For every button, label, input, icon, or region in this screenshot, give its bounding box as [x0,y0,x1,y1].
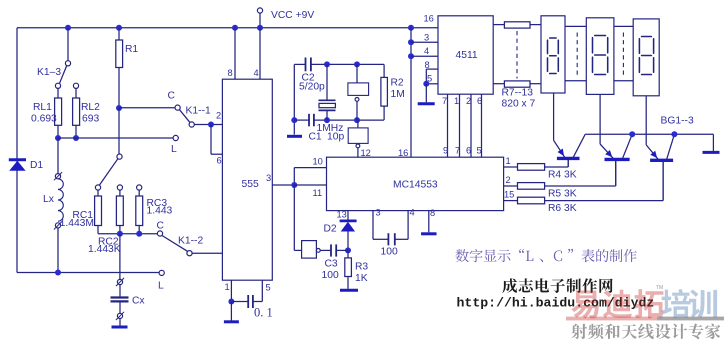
wire RC1 stub [97,190,99,196]
svg-text:3: 3 [376,208,381,218]
display DS3 body [633,19,659,96]
wire pin2-pin6 [210,125,212,155]
wire RC3 bottom [138,226,140,234]
jack Lx top [55,174,60,179]
trimmer top circle [355,98,359,102]
resistor RC3 [136,196,143,226]
node trim1 top [354,61,360,67]
svg-text:C: C [157,221,165,232]
wire 555 pin3 [272,184,294,186]
wire Cx top [119,234,121,280]
ground Cx [112,326,128,329]
wire C-tap down [118,108,120,154]
ground R3 [340,289,358,292]
svg-text:2: 2 [216,111,221,121]
display DS3 digit [639,37,653,75]
wire gate out [320,249,331,251]
wire osc top-left [294,63,305,65]
svg-text:555: 555 [242,179,259,190]
wire disp2-3 top [614,25,633,27]
wire R7 dashes [516,31,518,79]
inductor Lx [58,179,63,221]
wire MC pin3b [372,211,374,240]
wire C-tap to C [119,107,175,109]
switch contact RC1 [95,185,100,190]
node rail-R1 [116,25,122,31]
svg-text:BG1--3: BG1--3 [661,116,694,127]
wire RL1 bottom [57,125,59,138]
svg-text:0.693: 0.693 [31,114,57,125]
wire L bus [58,137,173,139]
trimmer bottom circle [356,144,360,148]
wire MC pin16 [410,28,412,158]
terminal C upper [175,105,180,110]
svg-text:Cx: Cx [132,296,145,307]
wire R3 gnd [347,277,349,289]
diode D2 [340,219,357,222]
svg-text:2: 2 [506,175,511,185]
svg-text:2: 2 [466,96,471,106]
wire Lx top [57,138,59,174]
svg-text:D1: D1 [30,160,43,171]
watermark underline [566,317,657,321]
trimmer top box [348,83,369,96]
wire 4511-MC x447.5 [447,94,449,157]
svg-text:820 x 7: 820 x 7 [502,99,536,110]
wire bottom bus [17,272,159,274]
wire osc top [311,63,384,65]
svg-text:L: L [171,144,177,155]
svg-text:R3: R3 [355,262,368,273]
wire disp2-3 bot [614,80,633,82]
svg-text:4: 4 [254,68,259,78]
svg-text:1M: 1M [391,89,405,100]
capacitor Cx [111,296,129,298]
svg-text:L: L [158,281,164,292]
wire 555 pin5 [261,280,263,301]
resistor R6 [518,197,545,204]
switch K1-3 contact RL2 [73,83,78,88]
switch K1-2 contact [187,251,192,256]
wire R6 to Q3 [545,200,664,202]
wire MC pin10 [293,168,295,185]
svg-text:5: 5 [266,283,271,293]
wire MC pin13 [347,211,349,220]
node trim1 bottom [354,117,360,123]
resistor R1 [116,40,123,68]
svg-text:VCC +9V: VCC +9V [271,10,314,21]
svg-text:K1--1: K1--1 [186,106,211,117]
op-amp U1 555 body [222,79,272,280]
node Lx-bus [55,270,61,276]
svg-text:Lx: Lx [43,194,55,205]
node RL2-bus [73,135,79,141]
resistor RL1 [55,98,62,125]
svg-text:R5 3K: R5 3K [548,189,577,200]
svg-text:4511: 4511 [456,50,478,61]
jack Cx bottom [117,313,122,318]
svg-text:C1: C1 [309,132,322,143]
svg-text:13: 13 [337,210,347,220]
svg-text:R7--13: R7--13 [502,88,534,99]
wire RC2 stub [119,190,121,196]
terminal L upper [173,135,178,140]
wire osc bottom1 [294,119,309,121]
svg-text:6: 6 [217,156,222,166]
label site-cn [502,278,612,293]
svg-text:11: 11 [313,188,323,198]
wire 4511 seg bot [493,83,504,85]
svg-text:100: 100 [381,247,398,258]
switch contact RC2 [117,185,122,190]
label slogan-cn [571,324,720,340]
svg-text:8: 8 [430,208,435,218]
svg-text:12: 12 [361,148,371,158]
wire rail gnd [712,134,714,151]
switch K1-1 lever [180,110,190,123]
svg-text:3: 3 [424,33,429,43]
svg-text:1: 1 [506,156,511,166]
wire D2 down [347,232,349,251]
resistor R7 bottom [504,81,530,87]
node xtal top [324,61,330,67]
watermark blue chars [661,289,717,318]
node RL1-bus [55,135,61,141]
wire RC2 bottom [119,226,121,234]
svg-text:16: 16 [398,148,408,158]
display DS1 digit [548,38,559,74]
svg-text:RL1: RL1 [33,102,52,113]
counter U2 MC14553 body [327,157,504,210]
node pin16-4 [408,53,414,59]
svg-text:R1: R1 [125,44,138,55]
wire 4511-MC x471 [470,94,472,157]
node C3-R3 [345,247,351,253]
wire 555 gnd [230,302,232,321]
display DS1 body [541,16,565,93]
resistor R3 [345,258,352,277]
wire disp1-2 top [565,25,586,27]
wire left border [16,28,18,273]
svg-text:1.443K: 1.443K [88,244,121,255]
node rail-555 pin4 [257,25,263,31]
wire MC pin8b [428,211,430,233]
switch K1-RC lever [100,159,118,185]
wire MC pin15 [504,200,518,202]
svg-text:0. 1: 0. 1 [254,306,273,320]
transistor Q1 [554,140,565,157]
svg-text:10: 10 [313,157,323,167]
transistor Q2 [600,144,613,158]
switch K1-3 pivot [65,61,70,66]
wire 4511 pin4 [411,55,438,57]
label title-cn [456,249,637,262]
wire RC1 bottom [97,226,99,234]
svg-text:1.443M: 1.443M [60,218,94,229]
svg-text:4: 4 [410,208,415,218]
wire disp1-2 bot [565,80,586,82]
wire 555 pin4 [259,28,261,79]
svg-text:8: 8 [228,68,233,78]
wire K1-3 from rail [67,28,69,61]
svg-text:10p: 10p [327,132,344,143]
node 555pin3 [291,182,297,188]
wire seg bot to disp [530,83,541,85]
wire MC pin1 [504,166,518,168]
switch K1-1 contact [189,122,194,127]
svg-text:1: 1 [454,96,459,106]
resistor R5 [518,183,545,190]
wire MC pin2 [504,185,518,187]
switch K1-3 lever [60,66,67,84]
svg-text:K1--2: K1--2 [178,236,203,247]
resistor RL2 [73,98,80,125]
svg-text:100: 100 [322,270,339,281]
svg-text:693: 693 [82,114,99,125]
node pin1 cap [228,299,234,305]
node pin16-3 [408,39,414,45]
node RC3-bus [136,231,142,237]
svg-text:4: 4 [424,46,429,56]
capacitor C3 [330,244,332,256]
decoder U3 4511 body [438,16,493,94]
wire 4511-MC x459.5 [459,94,461,157]
svg-text:K1–3: K1–3 [37,67,61,78]
transistor Q3 [646,145,658,159]
wire 4511 gnd [425,84,427,103]
wire seg top to disp [530,24,541,26]
svg-text:TM: TM [656,285,663,291]
display DS2 digit [593,36,608,75]
node osc left [291,117,297,123]
resistor R4 [518,164,545,171]
wire inverter drop [293,185,295,250]
svg-text:6: 6 [477,96,482,106]
switch contact RC3 [137,185,142,190]
diode D1 [9,158,26,161]
node RC2-bus [117,231,123,237]
wire RL2 bottom [75,125,77,138]
wire 4511 pin3 [411,41,438,43]
wire RL2 stub [75,88,77,98]
wire disp3 pin [645,96,647,145]
crystal X1 [326,64,328,100]
svg-text:R6 3K: R6 3K [548,203,577,214]
wire collector rail [585,133,713,135]
svg-text:9: 9 [443,146,448,156]
capacitor 0.1 [247,295,249,308]
svg-text:R2: R2 [391,78,404,89]
svg-text:C: C [168,91,176,102]
wire RL1 stub [57,88,59,98]
switch K1-3 contact RL1 [55,83,60,88]
wire R1 top [118,28,120,40]
svg-text:1K: 1K [355,273,368,284]
switch K1-2 lever [162,236,188,252]
wire disp2 pin [599,94,601,144]
wire R5 to Q2 [545,185,616,187]
wire R4 to Q1 [545,166,569,168]
wire Lx bottom [57,228,59,273]
wire osc bottom2 [314,119,384,121]
svg-text:16: 16 [424,14,434,24]
wire K1-2 to 555 [192,252,222,254]
wire 4511-MC x481.5 [481,94,483,157]
node rail-Q3 [671,131,677,137]
capacitor pin3-4 [387,233,389,245]
VCC terminal [257,8,262,13]
svg-text:D2: D2 [324,224,337,235]
resistor R7 top [504,22,530,28]
wire MC pin11 [294,184,326,186]
ground rail [703,151,720,154]
wire 4511 seg top [493,24,504,26]
node xtal bottom [324,117,330,123]
svg-text:R4 3K: R4 3K [548,170,577,181]
svg-text:C3: C3 [325,259,338,270]
wire Cx gnd [119,319,121,327]
resistor R2 [381,77,388,106]
node 4511 pin5 [423,81,429,87]
capacitor C2 [305,58,307,72]
node rail-4511 pin16 [408,25,414,31]
svg-text:7: 7 [455,146,460,156]
inverter gate [302,241,317,259]
svg-text:15: 15 [504,190,514,200]
wire disp1-2 dashes [576,33,578,76]
wire top VCC rail [17,27,438,29]
ground osc [287,135,302,138]
wire MC pin4b [395,238,408,240]
wire Cx stub2 [119,302,121,314]
ground 4511 [418,102,435,105]
node pin2 [208,122,214,128]
wire 4511 pin8 [426,68,438,70]
wire K1-1 to pin2 [194,124,222,126]
capacitor C1 [308,114,310,127]
wire osc left [293,64,295,134]
svg-text:3: 3 [266,173,271,183]
svg-text:7: 7 [442,96,447,106]
node rail-K1-3 [65,25,71,31]
wire Cx stub [119,285,121,298]
wire disp2-3 dashes [622,33,624,76]
wire 555 pin1 [230,280,232,301]
trimmer bottom box [348,128,368,143]
svg-text:1.443: 1.443 [147,206,173,217]
svg-text:RL2: RL2 [81,102,100,113]
terminal C lower [157,231,162,236]
svg-text:5/20p: 5/20p [299,82,325,93]
ground MC pin8 [421,232,437,235]
wire disp1 pin [553,93,555,140]
svg-text:6: 6 [466,146,471,156]
wire RC3 stub [138,190,140,196]
jack Lx bottom [55,223,60,228]
wire 555 pin8 [234,28,236,79]
svg-text:5: 5 [477,146,482,156]
wire trim2 to pin12 [357,148,359,157]
terminal L lower [159,270,164,275]
watermark red chars [571,289,663,318]
jack Cx top [117,279,122,284]
svg-text:MC14553: MC14553 [393,180,438,191]
display DS2 body [586,18,614,95]
svg-text:1: 1 [225,282,230,292]
resistor RC2 [116,196,123,226]
ground 555 [224,320,239,323]
wire R1 bottom [118,68,120,109]
node C-tap [116,105,122,111]
resistor RC1 [95,196,102,226]
node rail-Q2 [629,131,635,137]
switch K1-RC pivot [117,154,122,159]
node rail-555 pin8 [232,25,238,31]
wire 4511 pin5 [426,83,438,85]
